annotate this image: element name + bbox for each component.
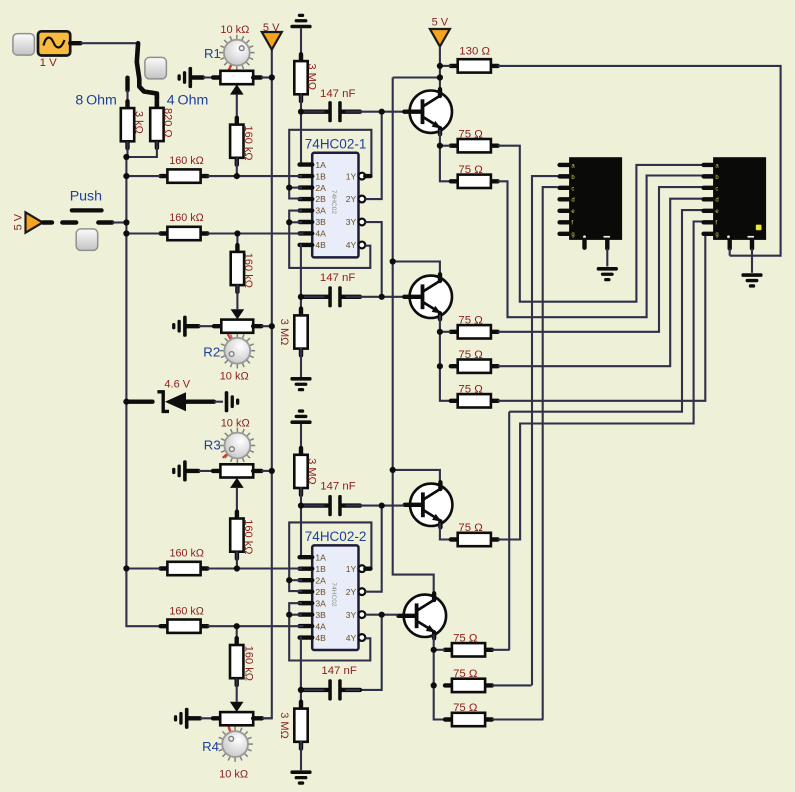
svg-text:160 kΩ: 160 kΩ bbox=[169, 606, 203, 618]
svg-text:4.6 V: 4.6 V bbox=[164, 379, 190, 391]
svg-text:147 nF: 147 nF bbox=[320, 88, 356, 100]
svg-text:R2: R2 bbox=[203, 345, 220, 360]
svg-text:3B: 3B bbox=[315, 217, 326, 227]
svg-text:2B: 2B bbox=[315, 194, 326, 204]
svg-text:4Y: 4Y bbox=[346, 240, 357, 250]
svg-text:74HC02-2: 74HC02-2 bbox=[305, 529, 367, 544]
svg-text:4B: 4B bbox=[315, 633, 326, 643]
svg-text:Push: Push bbox=[70, 189, 102, 205]
svg-text:3Y: 3Y bbox=[346, 217, 357, 227]
svg-text:R1: R1 bbox=[204, 46, 221, 61]
svg-text:74HC02-1: 74HC02-1 bbox=[305, 136, 367, 151]
svg-text:3Y: 3Y bbox=[346, 610, 357, 620]
svg-text:3 MΩ: 3 MΩ bbox=[306, 64, 318, 91]
svg-text:1B: 1B bbox=[315, 564, 326, 574]
svg-text:1B: 1B bbox=[315, 171, 326, 181]
svg-text:d: d bbox=[715, 198, 718, 204]
svg-text:g: g bbox=[571, 232, 574, 238]
svg-text:5 V: 5 V bbox=[432, 17, 449, 29]
svg-text:3 MΩ: 3 MΩ bbox=[278, 319, 290, 346]
svg-text:1Y: 1Y bbox=[346, 171, 357, 181]
svg-text:3A: 3A bbox=[315, 206, 326, 216]
svg-text:10 kΩ: 10 kΩ bbox=[220, 371, 249, 383]
svg-text:1A: 1A bbox=[315, 160, 326, 170]
svg-text:8 Ohm: 8 Ohm bbox=[75, 93, 116, 109]
svg-text:d: d bbox=[571, 198, 574, 204]
svg-text:3B: 3B bbox=[315, 610, 326, 620]
svg-text:R4: R4 bbox=[202, 739, 219, 754]
svg-text:2A: 2A bbox=[315, 183, 326, 193]
svg-text:160 kΩ: 160 kΩ bbox=[242, 519, 254, 554]
svg-text:4A: 4A bbox=[315, 621, 326, 631]
svg-text:2B: 2B bbox=[315, 587, 326, 597]
svg-text:2Y: 2Y bbox=[346, 587, 357, 597]
svg-text:160 kΩ: 160 kΩ bbox=[170, 547, 204, 559]
svg-text:3 kΩ: 3 kΩ bbox=[133, 111, 145, 134]
svg-text:3 MΩ: 3 MΩ bbox=[306, 458, 318, 485]
svg-text:2Y: 2Y bbox=[346, 194, 357, 204]
svg-text:4 Ohm: 4 Ohm bbox=[167, 93, 208, 109]
svg-text:147 nF: 147 nF bbox=[321, 665, 357, 677]
svg-text:10 kΩ: 10 kΩ bbox=[221, 418, 250, 430]
svg-text:R3: R3 bbox=[204, 437, 221, 452]
svg-text:147 nF: 147 nF bbox=[320, 272, 356, 284]
svg-text:820 Ω: 820 Ω bbox=[161, 108, 173, 138]
svg-text:1A: 1A bbox=[315, 552, 326, 562]
svg-text:10 kΩ: 10 kΩ bbox=[219, 769, 248, 781]
svg-text:160 kΩ: 160 kΩ bbox=[242, 253, 254, 288]
svg-text:1 V: 1 V bbox=[40, 57, 57, 69]
svg-text:5 V: 5 V bbox=[13, 213, 25, 230]
svg-text:74HC02: 74HC02 bbox=[330, 582, 337, 607]
svg-text:160 kΩ: 160 kΩ bbox=[169, 155, 203, 167]
svg-text:10 kΩ: 10 kΩ bbox=[220, 24, 249, 36]
svg-text:2A: 2A bbox=[315, 575, 326, 585]
svg-text:c: c bbox=[715, 186, 718, 192]
svg-text:1Y: 1Y bbox=[346, 564, 357, 574]
svg-text:g: g bbox=[715, 232, 718, 238]
svg-text:160 kΩ: 160 kΩ bbox=[243, 646, 255, 681]
svg-text:147 nF: 147 nF bbox=[320, 481, 356, 493]
svg-text:160 kΩ: 160 kΩ bbox=[169, 212, 203, 224]
svg-text:130 Ω: 130 Ω bbox=[459, 45, 490, 57]
svg-text:4B: 4B bbox=[315, 240, 326, 250]
svg-text:74HC02: 74HC02 bbox=[330, 190, 337, 215]
svg-text:3A: 3A bbox=[315, 598, 326, 608]
svg-text:4Y: 4Y bbox=[346, 633, 357, 643]
svg-text:160 kΩ: 160 kΩ bbox=[242, 126, 254, 161]
svg-text:4A: 4A bbox=[315, 229, 326, 239]
svg-text:3 MΩ: 3 MΩ bbox=[278, 712, 290, 739]
svg-text:c: c bbox=[571, 186, 574, 192]
